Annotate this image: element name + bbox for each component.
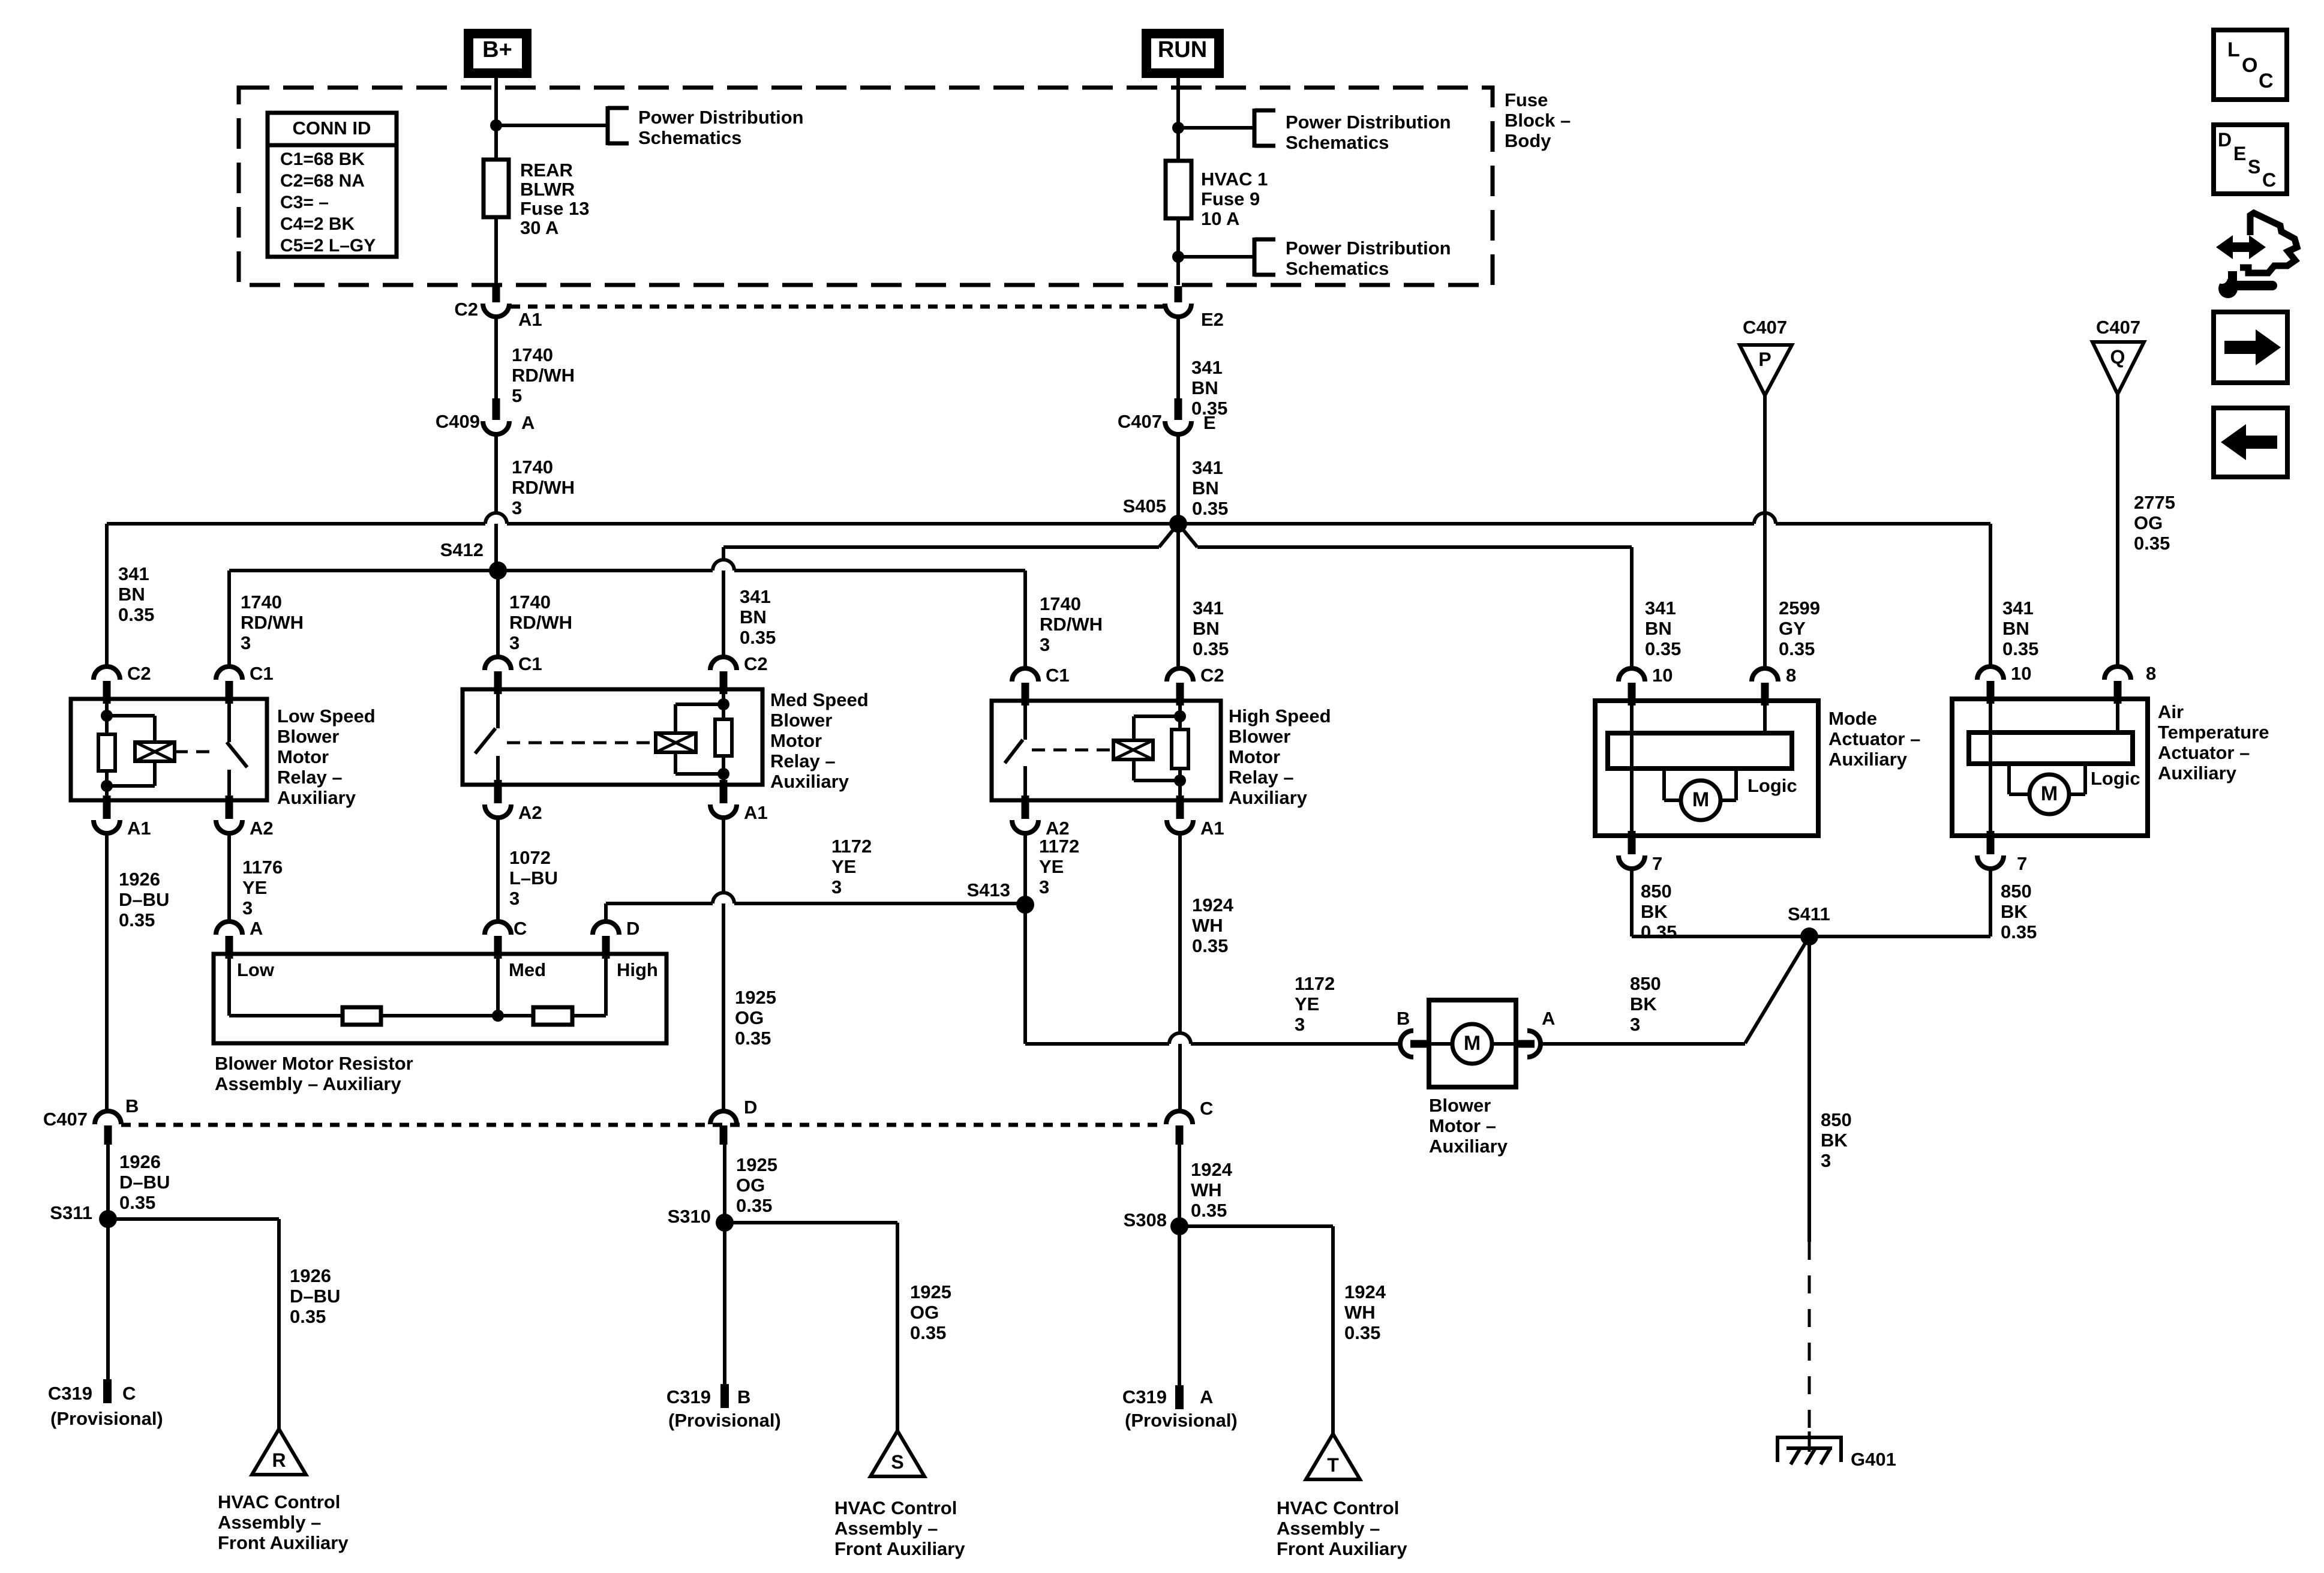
svg-text:Blower: Blower xyxy=(277,726,339,747)
svg-text:B: B xyxy=(1397,1008,1410,1029)
svg-text:B: B xyxy=(737,1386,750,1407)
svg-text:0.35: 0.35 xyxy=(2134,533,2170,554)
svg-text:1926: 1926 xyxy=(119,869,160,890)
svg-text:0.35: 0.35 xyxy=(1193,638,1229,659)
svg-text:GY: GY xyxy=(1779,618,1806,639)
svg-text:850: 850 xyxy=(1821,1109,1852,1130)
svg-text:C1: C1 xyxy=(1046,665,1070,686)
svg-text:BK: BK xyxy=(1630,993,1657,1014)
svg-text:Actuator –: Actuator – xyxy=(2158,742,2250,763)
svg-text:Motor: Motor xyxy=(1229,746,1280,767)
svg-text:1172: 1172 xyxy=(1039,836,1079,857)
svg-text:S412: S412 xyxy=(440,539,484,560)
svg-text:341: 341 xyxy=(740,586,771,607)
svg-text:O: O xyxy=(2242,54,2257,77)
svg-text:Power Distribution: Power Distribution xyxy=(1286,112,1451,133)
svg-text:Front Auxiliary: Front Auxiliary xyxy=(1277,1538,1407,1559)
svg-text:850: 850 xyxy=(2001,881,2032,902)
svg-text:Auxiliary: Auxiliary xyxy=(1229,787,1308,808)
svg-text:C407: C407 xyxy=(1118,411,1162,432)
svg-text:3: 3 xyxy=(509,632,520,653)
svg-text:WH: WH xyxy=(1344,1302,1376,1323)
svg-text:1172: 1172 xyxy=(1295,973,1335,994)
svg-text:BK: BK xyxy=(1641,901,1668,922)
svg-text:M: M xyxy=(1692,788,1709,811)
svg-text:0.35: 0.35 xyxy=(118,604,154,625)
svg-text:1740: 1740 xyxy=(512,344,553,365)
svg-text:Temperature: Temperature xyxy=(2158,722,2269,743)
svg-text:850: 850 xyxy=(1641,881,1672,902)
svg-text:0.35: 0.35 xyxy=(740,627,776,648)
svg-text:Fuse: Fuse xyxy=(1505,89,1548,110)
svg-text:Block –: Block – xyxy=(1505,110,1571,131)
svg-text:341: 341 xyxy=(118,563,149,584)
svg-text:C319: C319 xyxy=(1122,1386,1167,1407)
svg-text:S: S xyxy=(2248,156,2260,178)
svg-text:341: 341 xyxy=(1645,598,1676,619)
svg-text:Auxiliary: Auxiliary xyxy=(2158,763,2237,784)
svg-text:C319: C319 xyxy=(48,1383,92,1404)
svg-text:3: 3 xyxy=(512,497,522,518)
svg-text:RD/WH: RD/WH xyxy=(1040,614,1103,635)
svg-text:C: C xyxy=(2259,70,2274,92)
svg-text:Assembly –: Assembly – xyxy=(218,1512,321,1533)
svg-text:A1: A1 xyxy=(127,818,151,839)
svg-text:C1=68 BK: C1=68 BK xyxy=(280,149,365,169)
svg-text:BN: BN xyxy=(1191,377,1218,398)
svg-text:0.35: 0.35 xyxy=(119,1192,155,1213)
svg-text:R: R xyxy=(272,1449,286,1471)
svg-text:BK: BK xyxy=(1821,1130,1848,1151)
svg-text:S310: S310 xyxy=(668,1206,711,1227)
svg-text:0.35: 0.35 xyxy=(910,1322,946,1343)
svg-text:C2: C2 xyxy=(454,299,478,320)
svg-text:0.35: 0.35 xyxy=(119,909,155,930)
svg-text:1740: 1740 xyxy=(241,592,282,613)
svg-text:HVAC Control: HVAC Control xyxy=(834,1497,957,1518)
svg-text:3: 3 xyxy=(509,888,520,909)
svg-text:1924: 1924 xyxy=(1192,894,1234,915)
svg-text:Motor: Motor xyxy=(770,730,822,751)
svg-text:1925: 1925 xyxy=(910,1281,951,1302)
svg-text:YE: YE xyxy=(242,877,267,898)
svg-text:BN: BN xyxy=(1192,478,1219,499)
svg-text:Schematics: Schematics xyxy=(1286,258,1389,279)
svg-text:A1: A1 xyxy=(744,802,768,823)
svg-text:3: 3 xyxy=(1295,1014,1305,1035)
svg-text:A: A xyxy=(1200,1386,1213,1407)
svg-text:0.35: 0.35 xyxy=(1641,921,1677,942)
svg-text:341: 341 xyxy=(1191,357,1223,378)
svg-text:3: 3 xyxy=(242,897,253,918)
svg-text:YE: YE xyxy=(831,856,856,877)
svg-text:Blower: Blower xyxy=(1229,726,1290,747)
svg-text:1176: 1176 xyxy=(242,857,283,878)
svg-text:D: D xyxy=(744,1097,757,1118)
svg-text:Auxiliary: Auxiliary xyxy=(1429,1136,1508,1157)
svg-text:3: 3 xyxy=(1821,1150,1831,1171)
svg-text:RD/WH: RD/WH xyxy=(509,612,572,633)
svg-text:D: D xyxy=(626,918,639,939)
svg-text:OG: OG xyxy=(735,1007,764,1028)
svg-text:0.35: 0.35 xyxy=(2001,921,2037,942)
svg-text:Front Auxiliary: Front Auxiliary xyxy=(218,1532,349,1553)
svg-text:3: 3 xyxy=(1630,1014,1640,1035)
svg-text:S308: S308 xyxy=(1124,1209,1167,1230)
svg-text:Schematics: Schematics xyxy=(1286,132,1389,153)
svg-text:BN: BN xyxy=(740,607,767,628)
svg-text:0.35: 0.35 xyxy=(1344,1322,1380,1343)
svg-text:2599: 2599 xyxy=(1779,598,1820,619)
svg-text:BN: BN xyxy=(1645,618,1672,639)
svg-text:1740: 1740 xyxy=(1040,593,1081,614)
svg-text:10: 10 xyxy=(1652,665,1673,686)
svg-text:C407: C407 xyxy=(1743,317,1787,338)
svg-text:5: 5 xyxy=(512,385,522,406)
svg-text:C2: C2 xyxy=(744,653,768,674)
svg-text:T: T xyxy=(1327,1454,1339,1476)
svg-text:10 A: 10 A xyxy=(1201,208,1239,229)
svg-text:Fuse 13: Fuse 13 xyxy=(520,198,589,219)
svg-text:3: 3 xyxy=(831,876,842,897)
svg-text:OG: OG xyxy=(736,1175,765,1196)
svg-text:0.35: 0.35 xyxy=(290,1306,326,1327)
svg-text:Q: Q xyxy=(2110,346,2125,368)
svg-text:Actuator –: Actuator – xyxy=(1828,728,1920,749)
svg-text:Assembly –: Assembly – xyxy=(1277,1518,1380,1539)
svg-text:M: M xyxy=(1464,1032,1481,1055)
svg-text:C: C xyxy=(122,1383,136,1404)
svg-text:0.35: 0.35 xyxy=(1645,638,1681,659)
svg-text:C2=68 NA: C2=68 NA xyxy=(280,171,365,191)
svg-text:C2: C2 xyxy=(1200,665,1224,686)
svg-text:A2: A2 xyxy=(250,818,274,839)
svg-text:Low: Low xyxy=(237,959,275,980)
svg-text:Air: Air xyxy=(2158,701,2184,722)
svg-text:Front Auxiliary: Front Auxiliary xyxy=(834,1538,965,1559)
svg-text:1925: 1925 xyxy=(735,987,776,1008)
svg-text:D–BU: D–BU xyxy=(119,889,169,910)
svg-text:C409: C409 xyxy=(436,411,480,432)
svg-text:C4=2 BK: C4=2 BK xyxy=(280,214,355,234)
svg-text:B+: B+ xyxy=(482,37,512,62)
svg-text:(Provisional): (Provisional) xyxy=(50,1408,163,1429)
svg-text:S405: S405 xyxy=(1123,496,1166,517)
svg-text:0.35: 0.35 xyxy=(1779,638,1815,659)
svg-text:Mode: Mode xyxy=(1828,708,1877,729)
svg-text:Med: Med xyxy=(509,959,546,980)
svg-text:0.35: 0.35 xyxy=(2002,638,2038,659)
svg-text:3: 3 xyxy=(1040,634,1050,655)
svg-text:0.35: 0.35 xyxy=(735,1028,771,1049)
svg-text:Blower: Blower xyxy=(770,710,832,731)
svg-text:L–BU: L–BU xyxy=(509,867,558,888)
svg-text:0.35: 0.35 xyxy=(1192,498,1228,519)
svg-text:WH: WH xyxy=(1192,915,1223,936)
svg-text:0.35: 0.35 xyxy=(1191,398,1227,419)
svg-text:1924: 1924 xyxy=(1191,1159,1233,1180)
svg-text:Med Speed: Med Speed xyxy=(770,689,869,710)
svg-text:B: B xyxy=(125,1095,139,1116)
svg-text:Fuse 9: Fuse 9 xyxy=(1201,188,1260,209)
svg-text:341: 341 xyxy=(1193,598,1224,619)
svg-text:0.35: 0.35 xyxy=(1192,935,1228,956)
svg-text:A1: A1 xyxy=(1200,818,1224,839)
svg-text:1924: 1924 xyxy=(1344,1281,1386,1302)
svg-text:1926: 1926 xyxy=(290,1265,331,1286)
svg-text:341: 341 xyxy=(2002,598,2034,619)
svg-text:YE: YE xyxy=(1039,856,1064,877)
svg-text:1740: 1740 xyxy=(512,457,553,478)
svg-text:E: E xyxy=(2233,143,2246,164)
svg-text:1926: 1926 xyxy=(119,1151,161,1172)
svg-text:0.35: 0.35 xyxy=(1191,1200,1227,1221)
svg-text:D–BU: D–BU xyxy=(290,1286,340,1307)
svg-text:C1: C1 xyxy=(518,653,542,674)
svg-text:A: A xyxy=(521,412,535,433)
svg-text:Logic: Logic xyxy=(1747,775,1797,796)
svg-text:HVAC 1: HVAC 1 xyxy=(1201,169,1268,190)
svg-text:Relay –: Relay – xyxy=(277,767,343,788)
svg-text:Schematics: Schematics xyxy=(638,127,741,148)
svg-text:1925: 1925 xyxy=(736,1154,777,1175)
svg-text:1172: 1172 xyxy=(831,836,872,857)
svg-text:10: 10 xyxy=(2011,663,2031,684)
svg-text:C: C xyxy=(514,918,527,939)
svg-text:C5=2 L–GY: C5=2 L–GY xyxy=(280,236,376,256)
svg-text:Motor –: Motor – xyxy=(1429,1115,1496,1136)
svg-text:Motor: Motor xyxy=(277,746,329,767)
svg-text:WH: WH xyxy=(1191,1179,1222,1200)
svg-text:Auxiliary: Auxiliary xyxy=(770,771,849,792)
svg-text:850: 850 xyxy=(1630,973,1661,994)
svg-text:G401: G401 xyxy=(1851,1449,1896,1470)
svg-text:High Speed: High Speed xyxy=(1229,706,1331,727)
svg-text:BN: BN xyxy=(118,584,145,605)
svg-text:P: P xyxy=(1758,349,1771,370)
svg-text:Assembly –: Assembly – xyxy=(834,1518,938,1539)
svg-text:BN: BN xyxy=(1193,618,1220,639)
svg-text:A1: A1 xyxy=(518,309,542,330)
svg-text:Relay –: Relay – xyxy=(770,751,836,772)
svg-text:High: High xyxy=(617,959,658,980)
svg-text:341: 341 xyxy=(1192,457,1223,478)
svg-text:E2: E2 xyxy=(1201,309,1224,330)
svg-text:M: M xyxy=(2041,782,2058,805)
svg-text:C: C xyxy=(1200,1098,1213,1119)
svg-text:RD/WH: RD/WH xyxy=(512,477,575,498)
svg-text:3: 3 xyxy=(241,632,251,653)
svg-text:C407: C407 xyxy=(43,1109,88,1130)
svg-text:OG: OG xyxy=(2134,512,2163,533)
svg-text:7: 7 xyxy=(1652,853,1662,874)
svg-text:YE: YE xyxy=(1295,993,1319,1014)
svg-text:D: D xyxy=(2218,129,2232,151)
svg-text:Blower: Blower xyxy=(1429,1095,1491,1116)
svg-text:3: 3 xyxy=(1039,876,1049,897)
svg-text:CONN ID: CONN ID xyxy=(293,118,371,139)
svg-text:RD/WH: RD/WH xyxy=(241,612,304,633)
svg-text:L: L xyxy=(2227,38,2240,61)
svg-text:Auxiliary: Auxiliary xyxy=(1828,749,1908,770)
svg-text:OG: OG xyxy=(910,1302,939,1323)
svg-text:1072: 1072 xyxy=(509,847,551,868)
svg-text:S411: S411 xyxy=(1788,903,1830,924)
svg-text:C: C xyxy=(2262,169,2276,191)
svg-text:30 A: 30 A xyxy=(520,217,559,238)
svg-text:Relay –: Relay – xyxy=(1229,767,1294,788)
svg-text:RD/WH: RD/WH xyxy=(512,365,575,386)
svg-text:A: A xyxy=(250,918,263,939)
svg-text:S413: S413 xyxy=(967,879,1010,900)
svg-text:2775: 2775 xyxy=(2134,492,2175,513)
svg-text:(Provisional): (Provisional) xyxy=(668,1410,781,1431)
svg-text:A2: A2 xyxy=(518,802,542,823)
svg-text:BLWR: BLWR xyxy=(520,179,575,200)
svg-text:HVAC Control: HVAC Control xyxy=(218,1491,340,1512)
svg-text:8: 8 xyxy=(2146,663,2156,684)
svg-text:S311: S311 xyxy=(50,1202,92,1223)
svg-text:Assembly – Auxiliary: Assembly – Auxiliary xyxy=(215,1073,401,1094)
svg-text:D–BU: D–BU xyxy=(119,1172,170,1193)
svg-text:C2: C2 xyxy=(127,663,151,684)
svg-text:BN: BN xyxy=(2002,618,2029,639)
svg-text:RUN: RUN xyxy=(1158,37,1207,62)
svg-text:7: 7 xyxy=(2017,853,2027,874)
svg-text:A: A xyxy=(1542,1008,1555,1029)
svg-text:Auxiliary: Auxiliary xyxy=(277,787,356,808)
svg-text:REAR: REAR xyxy=(520,160,573,181)
svg-text:BK: BK xyxy=(2001,901,2028,922)
svg-text:C1: C1 xyxy=(250,663,274,684)
svg-text:Low Speed: Low Speed xyxy=(277,706,376,727)
svg-text:1740: 1740 xyxy=(509,592,551,613)
svg-text:Power Distribution: Power Distribution xyxy=(1286,238,1451,259)
svg-text:Body: Body xyxy=(1505,130,1551,151)
svg-text:(Provisional): (Provisional) xyxy=(1125,1410,1238,1431)
svg-text:Blower Motor Resistor: Blower Motor Resistor xyxy=(215,1053,413,1074)
svg-text:C319: C319 xyxy=(666,1386,711,1407)
svg-text:C407: C407 xyxy=(2096,317,2140,338)
svg-text:Power Distribution: Power Distribution xyxy=(638,107,804,128)
svg-text:HVAC Control: HVAC Control xyxy=(1277,1497,1399,1518)
svg-text:C3= –: C3= – xyxy=(280,193,329,212)
svg-text:8: 8 xyxy=(1786,665,1796,686)
svg-text:Logic: Logic xyxy=(2091,768,2140,789)
svg-text:S: S xyxy=(891,1451,903,1473)
svg-text:0.35: 0.35 xyxy=(736,1195,772,1216)
